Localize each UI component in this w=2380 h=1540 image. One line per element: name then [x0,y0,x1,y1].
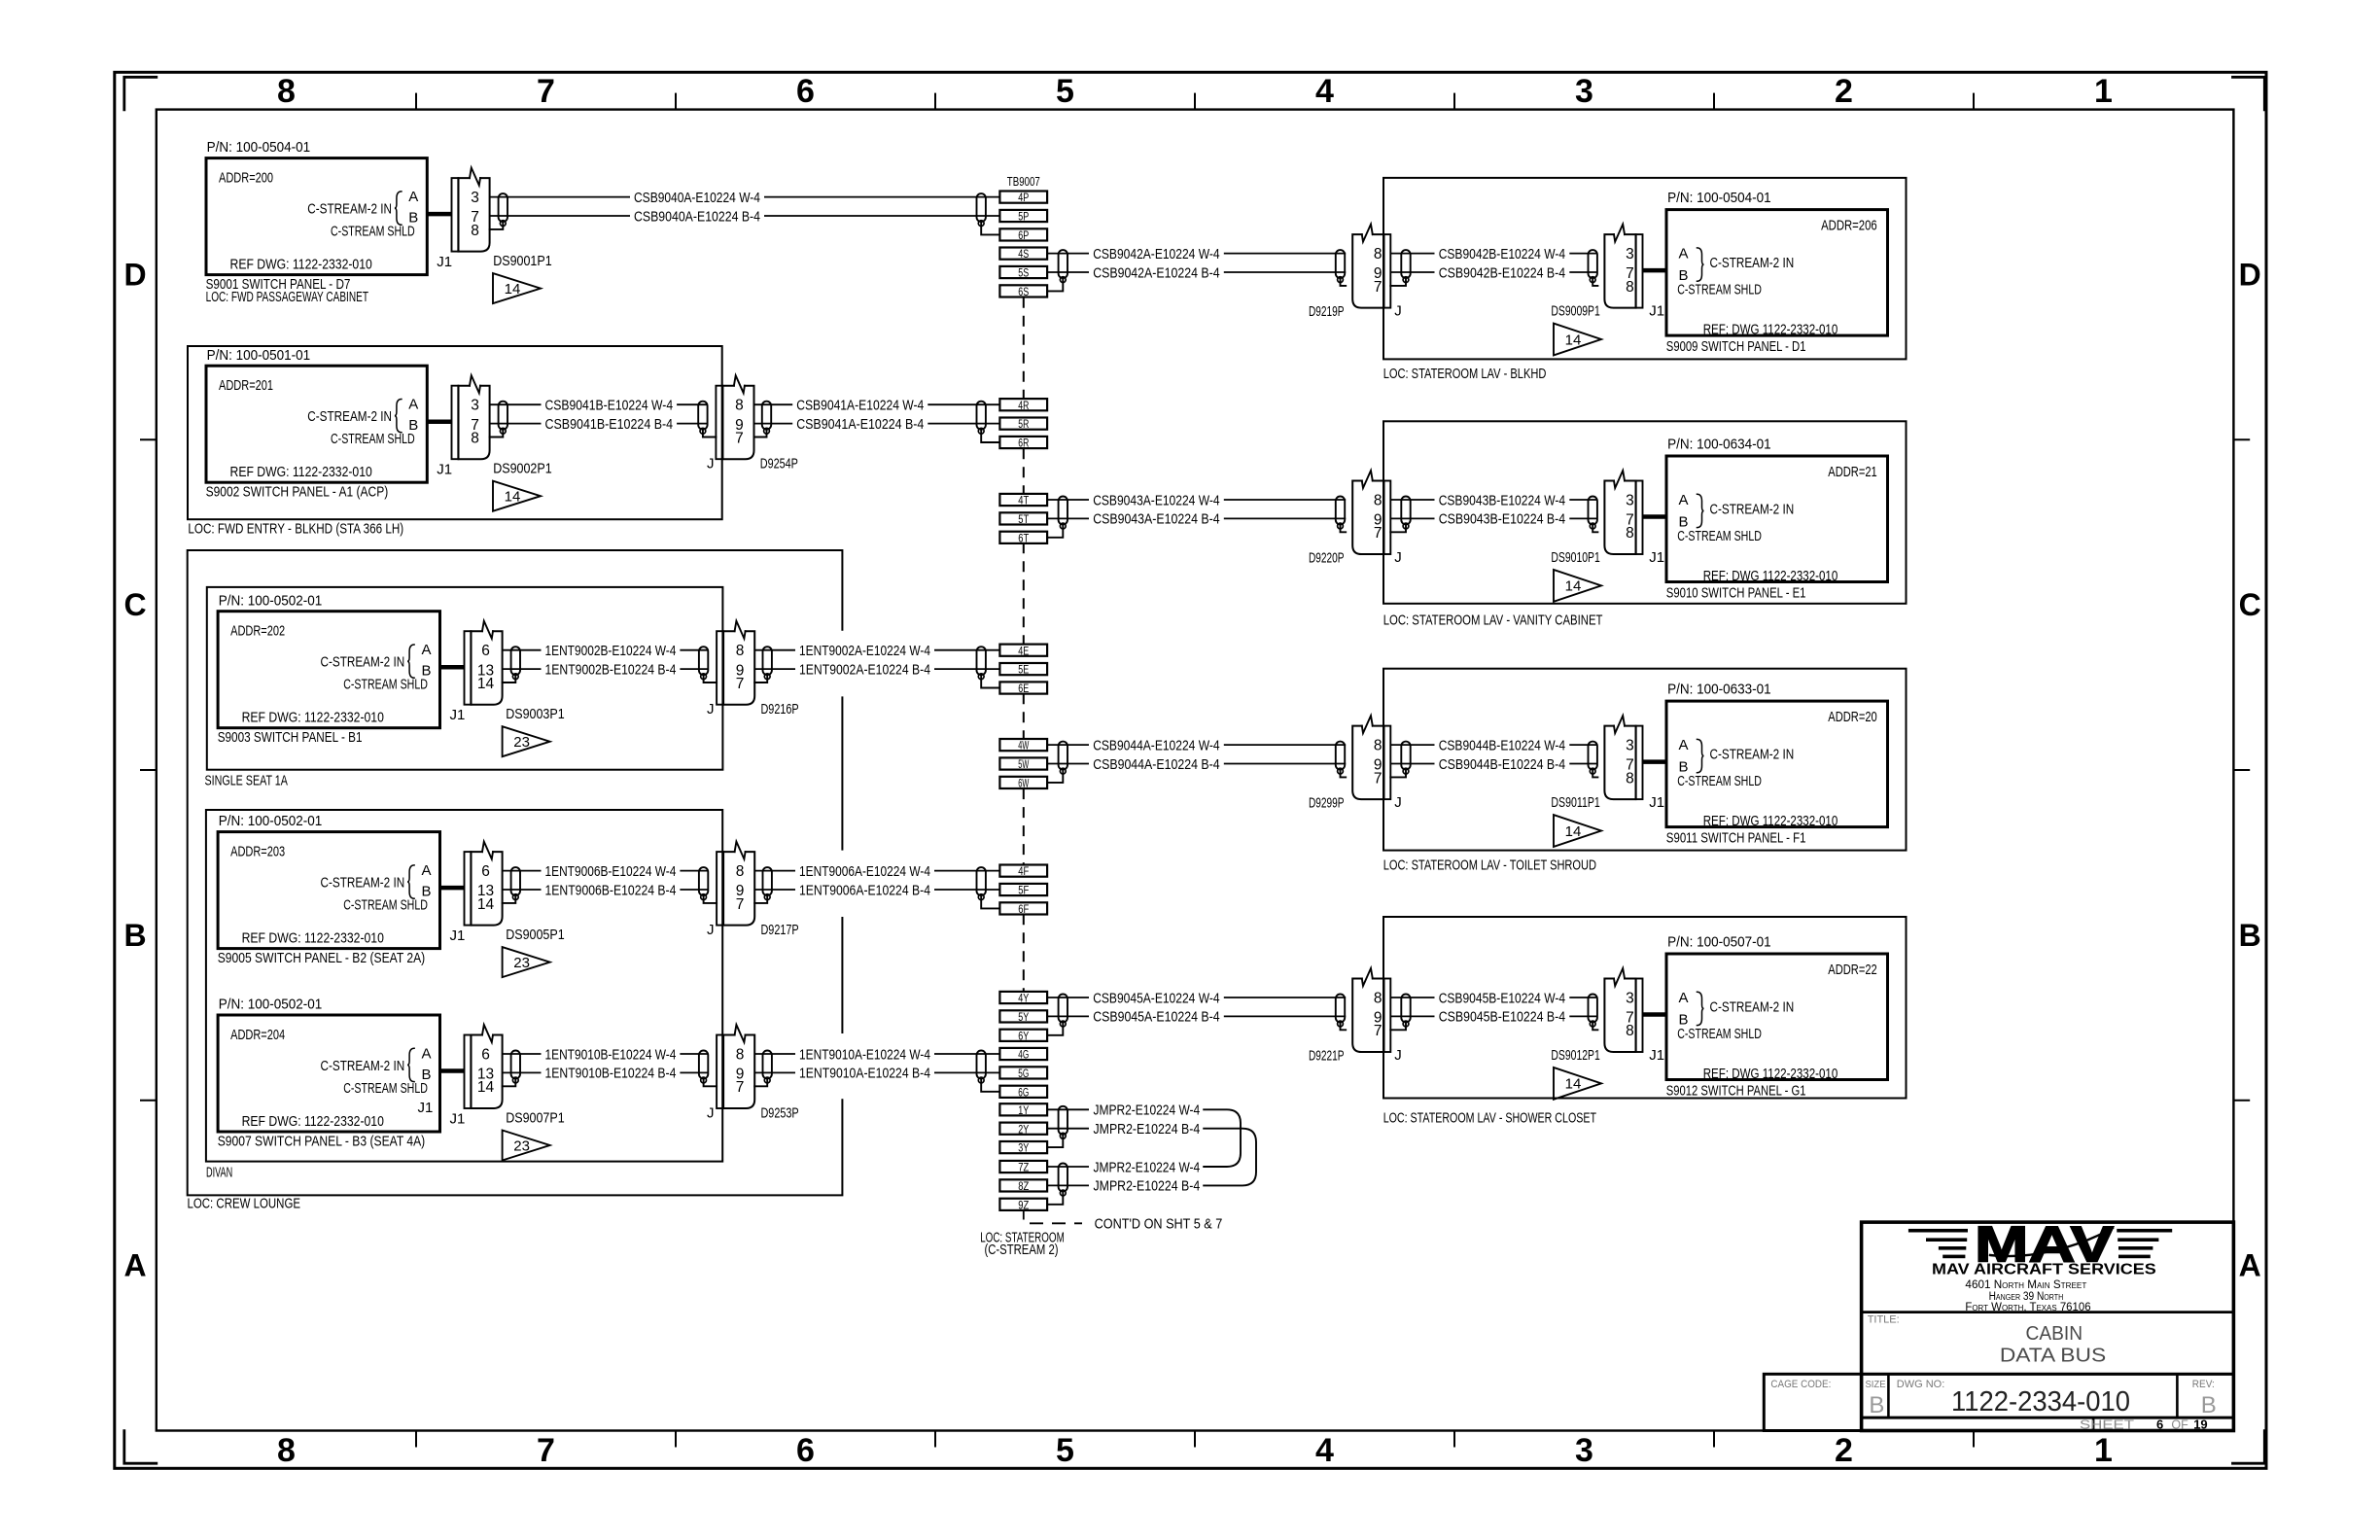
indicator triangle 14 at DS9010P1 [1554,570,1601,602]
svg-text:CSB9044A-E10224 W-4: CSB9044A-E10224 W-4 [1093,737,1219,753]
J1 and DS9005P1 labels [450,927,565,944]
wire 1ENT9002A-E10224 W-4 to TB9007 [754,643,999,659]
svg-text:CSB9042A-E10224 W-4: CSB9042A-E10224 W-4 [1093,246,1219,262]
svg-text:3: 3 [1575,1432,1593,1469]
svg-text:C: C [123,587,146,622]
svg-text:4R: 4R [1018,401,1029,412]
twisted pair at TB9007 and shield hook [977,1051,1000,1092]
svg-text:3: 3 [1626,737,1634,753]
shield stub out of J D9254P [754,431,767,437]
svg-text:1ENT9006A-E10224 W-4: 1ENT9006A-E10224 W-4 [799,863,930,880]
svg-text:6P: 6P [1018,230,1029,242]
svg-text:5T: 5T [1018,514,1029,526]
svg-text:ADDR=22: ADDR=22 [1828,962,1876,978]
wire CSB9042A-E10224 W-4 from TB9007 [1047,246,1346,262]
J1 and DS9003P1 labels [450,706,565,723]
svg-text:1Y: 1Y [1018,1105,1029,1117]
svg-text:1ENT9010A-E10224 W-4: 1ENT9010A-E10224 W-4 [799,1046,930,1063]
twisted pair at TB9007 jumper and shield hook [1047,1106,1067,1147]
svg-text:3: 3 [1575,73,1593,110]
svg-text:LOC: CREW LOUNGE: LOC: CREW LOUNGE [188,1196,301,1212]
svg-text:5W: 5W [1018,759,1029,771]
svg-text:3Y: 3Y [1018,1143,1029,1155]
svg-text:8: 8 [736,1046,745,1063]
svg-text:7: 7 [735,430,744,446]
svg-text:4: 4 [1315,73,1334,110]
svg-text:J: J [707,922,715,938]
svg-text:DS9007P1: DS9007P1 [506,1110,565,1127]
DS9011P1 and J1 labels [1551,794,1664,811]
svg-text:J1: J1 [450,707,466,723]
svg-text:D9299P: D9299P [1309,795,1345,812]
twisted pair at TB9007 and shield hook [1047,250,1067,291]
svg-text:1ENT9002B-E10224 B-4: 1ENT9002B-E10224 B-4 [545,661,677,678]
svg-text:CSB9041A-E10224 W-4: CSB9041A-E10224 W-4 [796,398,924,414]
enclosure box S9010 location [1383,421,1907,628]
svg-text:5F: 5F [1018,886,1029,897]
shield stub into J1 DS9011P1 [1592,771,1597,777]
svg-text:C-STREAM SHLD: C-STREAM SHLD [343,1080,428,1097]
svg-text:CSB9042A-E10224 B-4: CSB9042A-E10224 B-4 [1093,264,1219,281]
svg-text:7: 7 [1374,279,1382,296]
svg-text:A: A [422,1046,432,1063]
svg-text:4E: 4E [1018,646,1029,657]
wire JMPR2 B-4 jumper [1047,1121,1256,1185]
J and D9217P labels [707,922,799,938]
twisted pair at J1 DS9002P1 [499,402,507,434]
svg-text:14: 14 [477,676,495,692]
enclosure box DIVAN [206,810,722,1181]
svg-text:REF DWG: 1122-2332-010: REF DWG: 1122-2332-010 [230,257,372,273]
indicator triangle 23 at DS9003P1 [503,726,550,756]
J and D9254P labels [707,456,798,472]
twisted pair at J1 DS9003P1 [511,647,520,679]
D9299P and J labels [1309,794,1402,812]
svg-text:6R: 6R [1018,438,1029,450]
shield stub into J1 DS9009P1 [1592,280,1597,286]
svg-text:B: B [1869,1392,1884,1418]
indicator triangle 14 at DS9001P1 [493,273,541,303]
svg-text:7: 7 [537,73,555,110]
D9220P and J labels [1309,549,1402,567]
J1 and DS9002P1 labels [437,461,552,478]
wire CSB9044B-E10224 B-4 [1390,756,1597,773]
svg-text:DS9002P1: DS9002P1 [493,461,552,477]
shield stub out of J D9219P [1390,280,1406,286]
svg-text:14: 14 [1565,578,1582,595]
svg-text:J: J [1394,1047,1402,1064]
svg-text:C-STREAM SHLD: C-STREAM SHLD [1677,1026,1762,1042]
wire CSB9041A-E10224 B-4 to TB9007 [754,416,1000,433]
twisted pair out of J D9216P [763,647,772,679]
svg-text:J1: J1 [450,927,466,944]
DS9010P1 and J1 labels [1551,549,1664,566]
svg-text:LOC: STATEROOM LAV - TOILET SH: LOC: STATEROOM LAV - TOILET SHROUD [1383,857,1596,874]
svg-text:MAV AIRCRAFT SERVICES: MAV AIRCRAFT SERVICES [1932,1262,2156,1278]
shield stub at J1 DS9005P1 [503,897,516,903]
svg-text:14: 14 [505,281,521,297]
svg-text:6G: 6G [1018,1087,1029,1099]
wire CSB9045A-E10224 W-4 from TB9007 [1047,990,1346,1006]
terminals 1Y/2Y/3Y of TB9007 [999,1103,1047,1155]
enclosure box LOC: CREW LOUNGE [188,550,843,1212]
svg-text:C-STREAM-2 IN: C-STREAM-2 IN [1710,747,1795,763]
svg-text:8: 8 [1374,737,1382,753]
wire 1ENT9006B-E10224 B-4 [503,882,709,898]
svg-text:1ENT9006B-E10224 B-4: 1ENT9006B-E10224 B-4 [545,882,677,898]
twisted pair into J D9220P [1336,497,1345,529]
wire JMPR2 W-4 jumper [1047,1159,1200,1175]
svg-text:DWG NO:: DWG NO: [1897,1379,1945,1390]
wire 1ENT9010A-E10224 W-4 to TB9007 [754,1046,999,1063]
terminals 4T/5T/6T of TB9007 [999,494,1047,545]
svg-text:4G: 4G [1018,1050,1029,1062]
svg-text:9Z: 9Z [1018,1200,1029,1211]
wire JMPR2 B-4 jumper [1047,1178,1200,1195]
svg-text:A: A [1679,990,1689,1006]
connector J1 DS9005P1 pins 6/13/14 [465,842,503,926]
svg-text:3: 3 [471,190,479,206]
svg-text:5: 5 [1056,73,1074,110]
svg-text:C-STREAM-2 IN: C-STREAM-2 IN [307,201,392,218]
svg-text:(C-STREAM 2): (C-STREAM 2) [984,1242,1058,1258]
wire 1ENT9002B-E10224 W-4 [503,643,709,659]
svg-text:1ENT9006B-E10224 W-4: 1ENT9006B-E10224 W-4 [545,863,677,880]
svg-text:J1: J1 [437,254,452,270]
svg-text:J1: J1 [1649,794,1664,811]
svg-text:JMPR2-E10224 B-4: JMPR2-E10224 B-4 [1094,1121,1201,1137]
terminals 4S/5S/6S of TB9007 [999,248,1047,299]
connector J D9220P pins 8/9/7 [1352,471,1390,554]
twisted pair out of J D9219P [1401,250,1410,282]
svg-text:C-STREAM-2 IN: C-STREAM-2 IN [1710,999,1795,1016]
svg-text:S9005 SWITCH PANEL - B2 (SEAT: S9005 SWITCH PANEL - B2 (SEAT 2A) [218,950,426,966]
cage code / size / dwg no / rev cells [1770,1379,2216,1418]
wire 1ENT9010B-E10224 W-4 [503,1046,709,1063]
shield stub out of J D9216P [754,677,767,682]
svg-text:8: 8 [736,863,745,880]
wire CSB9040A-E10224 W-4 to TB9007 [490,190,1000,206]
svg-text:C-STREAM SHLD: C-STREAM SHLD [331,431,415,447]
svg-text:REF: DWG 1122-2332-010: REF: DWG 1122-2332-010 [1703,1066,1838,1082]
wire 1ENT9002A-E10224 B-4 to TB9007 [754,661,999,678]
svg-text:A: A [408,189,418,205]
wire 1ENT9006A-E10224 B-4 to TB9007 [754,882,999,898]
thick A/B pair from S9007 to J1 [440,1068,465,1073]
terminal block TB9007 label [1007,175,1040,189]
svg-text:B: B [123,918,146,953]
svg-text:CSB9040A-E10224 B-4: CSB9040A-E10224 B-4 [634,208,760,225]
thick A/B pair from S9001 to J1 [427,212,451,217]
svg-text:D9220P: D9220P [1309,550,1345,567]
wire CSB9041B-E10224 B-4 [490,416,708,433]
svg-text:3: 3 [471,398,479,414]
wire CSB9043B-E10224 B-4 [1390,511,1597,528]
connector J D9253P pins 8/9/7 [717,1025,754,1108]
svg-text:6: 6 [796,73,815,110]
svg-text:A: A [123,1248,146,1283]
svg-text:4F: 4F [1018,866,1029,878]
svg-text:7: 7 [736,896,745,913]
svg-text:8Z: 8Z [1018,1181,1029,1193]
svg-text:ADDR=202: ADDR=202 [230,623,285,640]
indicator triangle 14 at DS9012P1 [1554,1067,1601,1100]
svg-text:LOC: FWD PASSAGEWAY CABINET: LOC: FWD PASSAGEWAY CABINET [206,289,368,305]
svg-text:6: 6 [2156,1417,2163,1431]
connector J1 DS9011P1 pins 3/7/8 [1604,716,1642,799]
svg-text:4: 4 [1315,1432,1334,1469]
shield stub at J1 DS9007P1 [503,1080,516,1086]
title block frame [1764,1222,2233,1430]
svg-text:CSB9044A-E10224 B-4: CSB9044A-E10224 B-4 [1093,756,1219,773]
svg-text:J: J [1394,794,1402,811]
svg-text:6W: 6W [1018,779,1029,790]
wire 1ENT9006B-E10224 W-4 [503,863,709,880]
twisted pair at TB9007 and shield hook [977,193,1000,234]
svg-text:7: 7 [736,676,745,692]
J and D9216P labels [707,701,799,717]
svg-text:J1: J1 [450,1111,466,1128]
svg-text:6Y: 6Y [1018,1031,1029,1042]
svg-text:REF DWG: 1122-2332-010: REF DWG: 1122-2332-010 [242,710,384,726]
svg-text:S9003 SWITCH PANEL - B1: S9003 SWITCH PANEL - B1 [218,729,363,746]
svg-text:CAGE CODE:: CAGE CODE: [1770,1379,1831,1390]
switch panel S9007 P/N 100-0502-01 ADDR=204 [218,997,440,1150]
twisted pair into J D9254P [698,402,707,434]
switch panel S9011 P/N 100-0633-01 ADDR=20 [1666,681,1888,846]
node LOC: STATEROOM (C-STREAM 2) [980,1230,1065,1259]
terminals 4G/5G/6G of TB9007 [999,1048,1047,1100]
svg-text:7: 7 [1374,525,1382,542]
svg-text:REF: DWG 1122-2332-010: REF: DWG 1122-2332-010 [1703,568,1838,584]
twisted pair into J D9221P [1336,995,1345,1027]
twisted pair into J D9253P [699,1051,708,1083]
wire 1ENT9010A-E10224 B-4 to TB9007 [754,1066,999,1082]
svg-text:1ENT9006A-E10224 B-4: 1ENT9006A-E10224 B-4 [799,882,930,898]
svg-text:P/N: 100-0634-01: P/N: 100-0634-01 [1667,436,1771,452]
shield stub into J1 DS9010P1 [1592,526,1597,532]
svg-text:1ENT9010B-E10224 B-4: 1ENT9010B-E10224 B-4 [545,1066,677,1082]
svg-text:S9010 SWITCH PANEL - E1: S9010 SWITCH PANEL - E1 [1666,585,1806,602]
svg-text:2: 2 [1835,73,1853,110]
svg-text:DS9005P1: DS9005P1 [506,927,565,943]
wire 1ENT9006A-E10224 W-4 to TB9007 [754,863,999,880]
thick A/B pair from S9002 to J1 [427,419,451,424]
shield stub into J D9299P [1341,771,1347,777]
svg-text:7: 7 [1374,1023,1382,1039]
svg-text:8: 8 [1626,525,1634,542]
twisted pair at J1 DS9005P1 [511,867,520,899]
svg-text:14: 14 [1565,1076,1582,1093]
twisted pair at TB9007 and shield hook [1047,497,1067,538]
svg-text:1122-2334-010: 1122-2334-010 [1951,1386,2130,1417]
connector J D9216P pins 8/9/7 [717,621,754,705]
svg-text:CSB9043A-E10224 B-4: CSB9043A-E10224 B-4 [1093,511,1219,528]
enclosure box S9002 - FWD ENTRY [188,346,722,538]
svg-text:CSB9041B-E10224 W-4: CSB9041B-E10224 W-4 [545,398,674,414]
shield stub into J D9221P [1341,1024,1347,1030]
svg-text:C-STREAM SHLD: C-STREAM SHLD [343,897,428,914]
svg-text:CSB9045B-E10224 B-4: CSB9045B-E10224 B-4 [1439,1009,1565,1026]
svg-text:CABIN: CABIN [2026,1323,2083,1345]
shield stub into J D9217P [704,897,717,903]
svg-text:1ENT9002B-E10224 W-4: 1ENT9002B-E10224 W-4 [545,643,677,659]
svg-text:ADDR=201: ADDR=201 [219,377,273,394]
svg-text:C-STREAM-2 IN: C-STREAM-2 IN [321,1058,405,1074]
svg-text:1: 1 [2094,73,2113,110]
thick A/B pair into S9009 [1643,268,1667,273]
zone tick marks [140,93,2250,1448]
indicator triangle 14 at DS9011P1 [1554,815,1601,847]
svg-text:J: J [1394,549,1402,566]
terminals 4F/5F/6F of TB9007 [999,865,1047,917]
D9219P and J labels [1309,303,1402,321]
twisted pair into J1 DS9012P1 [1589,995,1597,1027]
wire JMPR2 W-4 jumper [1047,1102,1241,1167]
wire CSB9045B-E10224 W-4 [1390,990,1597,1006]
svg-text:S9009 SWITCH PANEL - D1: S9009 SWITCH PANEL - D1 [1666,338,1806,355]
svg-text:C-STREAM SHLD: C-STREAM SHLD [1677,773,1762,789]
svg-text:Fort Worth, Texas 76106: Fort Worth, Texas 76106 [1965,1302,2090,1313]
twisted pair out of J D9299P [1401,742,1410,774]
twisted pair at J1 DS9001P1 [499,193,507,226]
svg-text:C: C [2239,587,2261,622]
svg-text:23: 23 [513,1137,530,1154]
shield stub into J D9219P [1341,280,1347,286]
svg-text:14: 14 [477,896,495,913]
zone letters left [123,258,146,1283]
twisted pair at TB9007 jumper and shield hook [1047,1164,1067,1205]
connector J D9221P pins 8/9/7 [1352,968,1390,1052]
terminals 4E/5E/6E of TB9007 [999,645,1047,696]
svg-text:8: 8 [471,223,479,239]
svg-text:C-STREAM-2 IN: C-STREAM-2 IN [1710,502,1795,518]
svg-text:P/N: 100-0507-01: P/N: 100-0507-01 [1667,933,1771,950]
svg-text:B: B [2201,1392,2217,1418]
svg-text:DS9010P1: DS9010P1 [1551,549,1599,566]
twisted pair into J D9219P [1336,250,1345,282]
svg-text:8: 8 [1626,770,1634,787]
svg-text:4W: 4W [1018,741,1029,752]
shield stub into J D9254P [703,431,717,437]
terminals 7Z/8Z/9Z of TB9007 [999,1161,1047,1212]
D9221P and J labels [1309,1047,1402,1065]
twisted pair at TB9007 and shield hook [977,867,1000,908]
svg-text:14: 14 [1565,332,1582,348]
wire CSB9041A-E10224 W-4 to TB9007 [754,398,1000,414]
wire CSB9045B-E10224 B-4 [1390,1009,1597,1026]
enclosure box S9012 location [1383,917,1907,1127]
svg-text:8: 8 [736,643,745,659]
svg-text:8: 8 [471,430,479,446]
svg-text:CONT'D ON SHT 5 & 7: CONT'D ON SHT 5 & 7 [1095,1216,1223,1233]
C-STREAM 2 bus dashed line [1023,297,1025,992]
svg-text:ADDR=20: ADDR=20 [1828,709,1876,725]
svg-text:A: A [1679,246,1689,262]
svg-text:REF DWG: 1122-2332-010: REF DWG: 1122-2332-010 [242,930,384,947]
wire CSB9044A-E10224 W-4 from TB9007 [1047,737,1346,753]
svg-text:DIVAN: DIVAN [206,1165,232,1181]
svg-text:CSB9043A-E10224 W-4: CSB9043A-E10224 W-4 [1093,492,1219,508]
indicator triangle 14 at DS9002P1 [493,481,541,511]
J1 and DS9007P1 labels [450,1110,565,1128]
svg-text:S9011 SWITCH PANEL - F1: S9011 SWITCH PANEL - F1 [1666,830,1806,847]
svg-text:A: A [422,862,432,879]
wire CSB9044B-E10224 W-4 [1390,737,1597,753]
svg-text:P/N: 100-0502-01: P/N: 100-0502-01 [219,997,323,1013]
switch panel S9001 P/N 100-0504-01 ADDR=200 [206,139,428,305]
svg-text:6S: 6S [1018,287,1029,298]
svg-text:CSB9043B-E10224 B-4: CSB9043B-E10224 B-4 [1439,511,1565,528]
svg-text:J1: J1 [1649,1047,1664,1064]
svg-text:C-STREAM-2 IN: C-STREAM-2 IN [1710,255,1795,271]
svg-text:1ENT9010B-E10224 W-4: 1ENT9010B-E10224 W-4 [545,1046,677,1063]
svg-text:8: 8 [1374,246,1382,262]
thick A/B pair from S9003 to J1 [440,665,465,670]
svg-text:23: 23 [513,955,530,971]
svg-text:D: D [2239,258,2261,293]
shield stub at J1 DS9003P1 [503,677,516,682]
enclosure box S9011 location [1383,669,1907,874]
logo MAV AIRCRAFT SERVICES [1932,1262,2156,1278]
wire CSB9043B-E10224 W-4 [1390,492,1597,508]
svg-text:4Y: 4Y [1018,994,1029,1005]
svg-text:1ENT9002A-E10224 B-4: 1ENT9002A-E10224 B-4 [799,661,930,678]
wire CSB9044A-E10224 B-4 from TB9007 [1047,756,1346,773]
DS9009P1 and J1 labels [1551,303,1664,320]
svg-text:P/N: 100-0502-01: P/N: 100-0502-01 [219,592,323,609]
connector J1 DS9009P1 pins 3/7/8 [1604,225,1642,308]
switch panel S9003 P/N 100-0502-01 ADDR=202 [218,592,440,746]
svg-text:D9216P: D9216P [761,701,799,717]
thick A/B pair into S9012 [1643,1012,1667,1017]
twisted pair at J1 DS9007P1 [511,1051,520,1083]
indicator triangle 23 at DS9005P1 [503,947,550,977]
terminals 4Y/5Y/6Y of TB9007 [999,992,1047,1043]
wire 1ENT9002B-E10224 B-4 [503,661,709,678]
svg-text:5E: 5E [1018,665,1029,677]
connector J D9217P pins 8/9/7 [717,842,754,926]
svg-text:14: 14 [505,489,521,506]
svg-text:8: 8 [1626,279,1634,296]
svg-text:JMPR2-E10224 W-4: JMPR2-E10224 W-4 [1094,1159,1201,1175]
zone numbers bottom [277,1432,2113,1469]
svg-text:8: 8 [277,73,296,110]
svg-text:DATA BUS: DATA BUS [2000,1346,2106,1367]
svg-text:14: 14 [1565,823,1582,840]
svg-text:DS9001P1: DS9001P1 [493,253,552,269]
svg-text:CSB9045B-E10224 W-4: CSB9045B-E10224 W-4 [1439,990,1565,1006]
wire CSB9045A-E10224 B-4 from TB9007 [1047,1009,1346,1026]
twisted pair into J1 DS9011P1 [1589,742,1597,774]
svg-text:ADDR=203: ADDR=203 [230,844,285,860]
J1 and DS9001P1 labels [437,253,552,270]
svg-text:C-STREAM-2 IN: C-STREAM-2 IN [307,408,392,425]
svg-text:4601 North Main Street: 4601 North Main Street [1965,1279,2086,1291]
sheet 6 of 19 [2080,1417,2208,1431]
svg-text:7: 7 [537,1432,555,1469]
shield stub out of J D9299P [1390,771,1406,777]
svg-text:OF: OF [2171,1417,2188,1431]
wire CSB9041B-E10224 W-4 [490,398,708,414]
svg-text:4T: 4T [1018,496,1029,507]
connector J1 DS9012P1 pins 3/7/8 [1604,968,1642,1052]
svg-text:8: 8 [1626,1023,1634,1039]
logo MAV wing bars [1908,1229,2172,1258]
svg-text:S9002 SWITCH PANEL - A1 (ACP): S9002 SWITCH PANEL - A1 (ACP) [206,484,389,501]
thick A/B pair from S9005 to J1 [440,886,465,891]
connector J D9219P pins 8/9/7 [1352,225,1390,308]
